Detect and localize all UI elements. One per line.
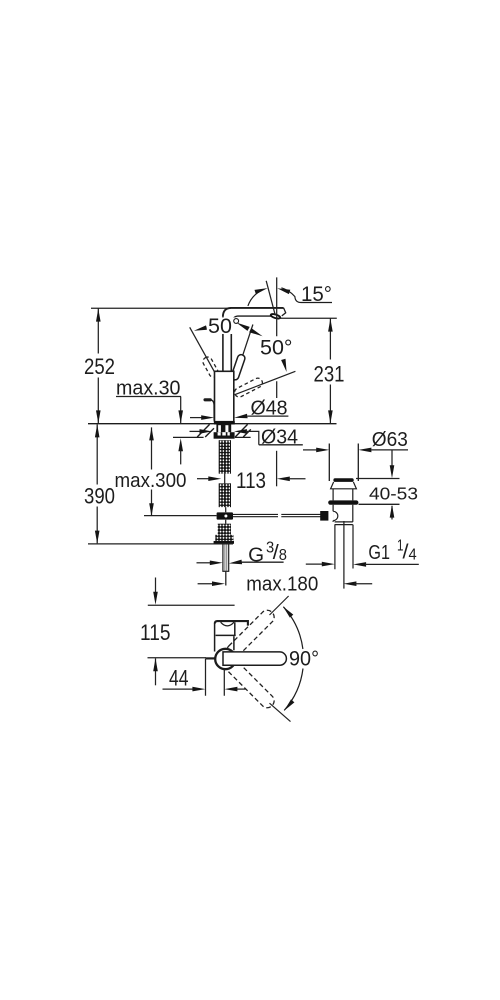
dim max180 left arrow [198,583,214,585]
g38 tube [223,544,229,572]
popup cup [333,489,353,501]
dim o34 left arrow [190,430,202,432]
deck top line [88,423,337,425]
popup rod horizontal [144,515,217,517]
pivot left tangent tick [206,657,215,659]
dim 44 line with right arrow [163,688,195,690]
svg-text:max.180: max.180 [246,572,318,595]
svg-text:4: 4 [409,546,418,563]
dim 231 extension line at spout tip [279,317,337,319]
15 degree right arrowhead [277,288,290,294]
15 degree right arc with leader to label [281,288,332,303]
shank top section [216,424,231,433]
svg-text:50°: 50° [260,335,293,359]
pull rod knob [205,398,210,401]
spout top edge [223,308,284,317]
deck hatch right [235,424,251,437]
15 degree left arrowhead [255,288,268,294]
dim o34 right arrow with leader [234,429,247,434]
dashed spout up [224,608,277,661]
topview spout bar [223,652,286,665]
solid lever [230,354,245,381]
topview lever block and neck [215,622,236,651]
popup seal ring [328,500,358,504]
label o34 underline [259,444,303,446]
dim 40-53 up arrow [391,506,393,520]
aerator ellipse [270,313,280,319]
base plate [214,421,235,424]
g38 nut lattice [218,524,231,535]
svg-text:113: 113 [236,468,266,493]
lower dashed lever [233,377,264,399]
g38 nut bottom bar [214,541,234,544]
dim o48 left arrow [190,417,203,419]
bottom extension line [148,657,207,659]
dim 231 arrowheads [328,319,333,332]
spout tip face [282,308,286,316]
dim 113 right extension line [276,451,278,487]
dim max300 line [151,427,153,516]
svg-text:Ø34: Ø34 [261,426,298,449]
dim 44 extension lines [206,659,225,696]
deck bottom line left [173,436,204,438]
topview pivot circle [215,649,235,669]
topview lever paddle top bar [215,621,248,626]
popup flange extension line [356,478,400,480]
popup valve body [333,505,353,525]
topview lever arc [221,622,234,626]
popup lever knob [320,511,328,521]
50 deg lower arrowhead [281,359,287,372]
svg-text:Ø63: Ø63 [372,428,408,451]
dim 252 arrowheads [96,309,101,322]
15 degree slanted line [266,281,275,316]
hose core in gap [225,474,226,524]
popup ball joint [329,511,334,520]
threaded hose upper [219,440,231,473]
left dashed lever [201,355,219,378]
dim g114 right arrow underline [353,562,366,567]
dim max180 right arrow [343,581,356,586]
g38 nut wide band [215,535,233,541]
spout underside line [231,316,271,322]
pull rod stem [210,400,214,421]
deck hatch left [197,424,214,437]
dim 231 line [329,318,331,423]
svg-text:115: 115 [140,620,171,645]
dim max30 arrowheads [178,410,183,423]
dim 390 extension line bottom [88,543,233,545]
lower dashed lever axis [235,371,296,394]
popup tailpipe [335,525,353,570]
popup plug top bar [333,478,353,482]
cross fitting [217,512,233,519]
rod below tube [225,571,227,585]
popup center rod [343,521,345,589]
popup tube walls [329,444,358,482]
dim o48 right arrow with underline leader [234,414,248,419]
white gap for label 50a [207,317,242,334]
axis line up [270,596,289,615]
svg-text:G1: G1 [368,541,390,564]
svg-text:15°: 15° [301,282,332,306]
dim max30 leader line down [180,397,182,424]
svg-text:Ø48: Ø48 [251,397,288,420]
dim g114 left arrow [306,563,323,565]
deck bottom line right [235,436,251,438]
dim 44 second arrow [224,687,237,692]
dim 113 right arrow [277,477,290,482]
axis line down [270,703,291,721]
shank nut [214,432,235,439]
dim 115 top tail [155,578,157,593]
svg-text:50°: 50° [208,314,241,338]
90 deg arc upper [283,607,303,649]
neck left edge [222,317,224,371]
dim 252 extension line top [91,307,231,309]
50 deg left arrowhead [194,325,207,330]
svg-text:252: 252 [84,354,115,379]
90 deg arrowheads [283,606,293,617]
dim 252 line [97,308,99,423]
dim 390 line [96,424,98,543]
dim 115 bottom tail [155,658,157,685]
faucet body [215,371,234,421]
90 deg arc lower [284,669,303,711]
solid lever axis line [234,325,253,381]
threaded hose lower [219,483,231,507]
neck right edge [230,322,232,371]
dim g38 left arrow [197,562,213,564]
centerline at spout tip [276,277,278,398]
15 degree left arc [248,290,262,306]
popup tube dim arrows [303,449,318,451]
svg-text:390: 390 [84,483,115,508]
popup plug flare [331,482,357,489]
svg-text:40-53: 40-53 [369,483,418,503]
svg-text:max.300: max.300 [115,469,187,492]
50 deg bowtie arrowheads [236,323,250,331]
svg-text:231: 231 [314,361,345,386]
dashed spout down [224,658,277,711]
dim o63 leader arrow down [391,450,393,466]
svg-text:44: 44 [169,665,189,690]
left dashed lever axis [190,327,216,374]
dim g38 right arrow underline [229,560,242,565]
svg-text:90°: 90° [289,646,319,670]
label 40-53 underline [359,503,400,505]
top extension line [148,604,235,606]
dim 113 arrow [197,478,210,480]
